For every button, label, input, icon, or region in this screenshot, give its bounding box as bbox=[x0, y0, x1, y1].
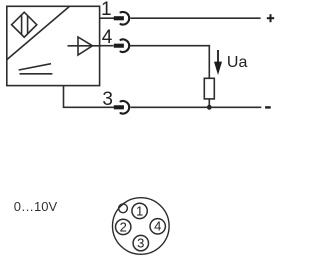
svg-text:2: 2 bbox=[120, 219, 127, 234]
pin circle 3 bbox=[133, 235, 148, 250]
wire pin 1 from box bbox=[100, 17, 115, 19]
svg-text:4: 4 bbox=[102, 27, 113, 48]
svg-text:3: 3 bbox=[137, 236, 144, 251]
inductive sensor symbol bbox=[12, 12, 37, 37]
pin circle 1 bbox=[132, 203, 147, 218]
connector plug pin 4 bbox=[114, 44, 124, 48]
svg-text:4: 4 bbox=[154, 219, 161, 234]
svg-text:0…10V: 0…10V bbox=[14, 199, 58, 214]
wire 3 to minus terminal bbox=[130, 106, 261, 108]
connector socket arc pin 3 bbox=[121, 101, 130, 114]
pin circle 4 bbox=[150, 219, 165, 234]
arrow Ua bbox=[214, 50, 222, 75]
connector plug pin 3 bbox=[114, 105, 124, 109]
connector plug pin 1 bbox=[114, 16, 124, 20]
amplifier A1 bbox=[68, 37, 100, 55]
connector socket arc pin 4 bbox=[121, 39, 130, 52]
wire pin 4 from box bbox=[100, 45, 114, 47]
pin circle 2 bbox=[116, 219, 131, 234]
junction node bbox=[207, 105, 212, 110]
connector socket arc pin 1 bbox=[121, 12, 130, 25]
sensor box U1 bbox=[7, 6, 100, 85]
wire 4 to corner bbox=[130, 45, 210, 47]
wire 4 corner down to resistor bbox=[208, 45, 210, 79]
plus terminal bbox=[267, 14, 274, 22]
box diagonal divider bbox=[7, 7, 69, 60]
wire 1 to plus terminal bbox=[130, 17, 260, 19]
wire resistor to node bbox=[208, 99, 210, 107]
M12 connector face bbox=[113, 198, 170, 255]
svg-text:1: 1 bbox=[101, 0, 112, 20]
wire pin 3 step from box bottom bbox=[64, 86, 115, 108]
svg-text:1: 1 bbox=[136, 203, 143, 218]
analog output symbol bbox=[19, 64, 53, 74]
svg-text:Ua: Ua bbox=[227, 54, 248, 71]
keying notch bbox=[119, 204, 128, 213]
minus terminal bbox=[265, 106, 271, 108]
load resistor RL bbox=[204, 78, 214, 99]
